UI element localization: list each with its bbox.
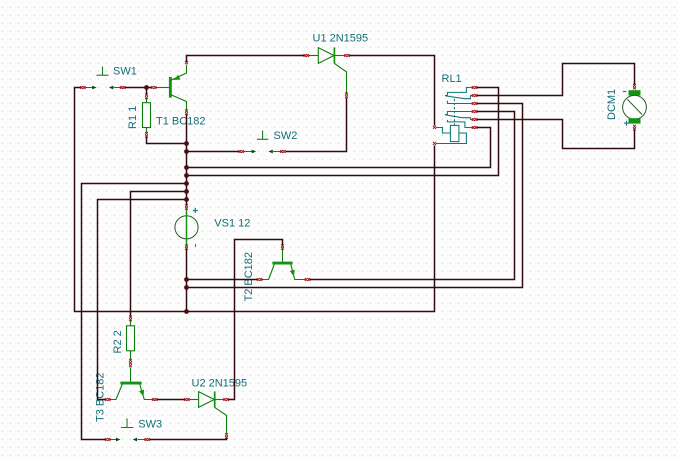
pin marks SW2 right	[280, 150, 286, 153]
pin marks RL1 coil B	[433, 142, 436, 145]
relay RL1 contact group 2 arm	[445, 115, 473, 120]
svg-text:SW3: SW3	[138, 418, 162, 430]
pin marks RL1 pin 1	[472, 86, 478, 89]
pin marks U1 anode	[304, 54, 310, 57]
node bus y167 junction	[184, 165, 189, 170]
relay RL1 linkage dashed line	[453, 99, 455, 125]
wire T2 right pin up to relay pin4	[310, 112, 515, 280]
pin marks RL1 coil A	[433, 126, 436, 129]
wire SW1 right to T1 base junction	[125, 87, 152, 89]
pin marks DCM1 bottom	[633, 125, 636, 131]
wire bus y287 right up to relay pin3	[187, 104, 523, 288]
transistor T3 base bar	[120, 382, 141, 385]
node SW1/R1/T1-base junction	[144, 85, 149, 90]
transistor T2 leads and emitter arrow	[262, 249, 306, 280]
transistor T1 base bar	[169, 77, 172, 98]
switch SW1 symbol	[85, 67, 121, 90]
pin marks SW2 left	[239, 150, 245, 153]
wire T1 emitter to U1 anode (top bus)	[187, 56, 305, 63]
svg-text:VS1 12: VS1 12	[214, 217, 250, 229]
pin marks T1 collector	[185, 110, 188, 116]
relay RL1 contact group 2 NO	[445, 112, 474, 115]
node R1/T1-collector/bus junction	[184, 141, 189, 146]
node bus y199 junction	[184, 197, 189, 202]
pin marks DCM1 top	[633, 84, 636, 90]
wire SW1 left down left side to bottom bus y311 to coil pin B vertical	[75, 88, 435, 312]
svg-text:R2 2: R2 2	[112, 330, 124, 353]
svg-text:U2 2N1595: U2 2N1595	[192, 378, 248, 390]
resistor R2	[127, 320, 135, 359]
wire bus y279 to T2 left pin	[187, 279, 258, 281]
wire bus y199 left down to T3 collector	[98, 200, 187, 400]
pin marks U2 gate	[225, 433, 228, 439]
node bus y175 junction	[184, 173, 189, 178]
pin marks R2 bottom / T3 base	[129, 359, 132, 367]
node bus y287 junction	[184, 285, 189, 290]
pin marks R1 bottom	[145, 132, 148, 138]
node bottom bus junction	[184, 309, 189, 314]
pin marks VS1 minus	[185, 245, 188, 250]
pin marks SW1 right	[120, 86, 126, 89]
wire bus y167 right up to relay pin6	[187, 128, 491, 168]
pin marks T2 base	[281, 244, 284, 249]
svg-text:U1 2N1595: U1 2N1595	[313, 33, 369, 45]
pin marks T2 collector	[257, 278, 263, 281]
wire SW3 right to U2 gate	[149, 437, 226, 439]
svg-text:T2 BC182: T2 BC182	[243, 252, 255, 302]
pin marks U1 gate	[345, 93, 348, 99]
transistor T1 leads and emitter arrow	[156, 65, 187, 111]
pin marks RL1 pin 2	[472, 94, 478, 97]
wire bus to SW2 left	[187, 151, 240, 153]
pin marks RL1 pin 6	[472, 126, 478, 129]
node bus y183 junction	[184, 181, 189, 186]
resistor R1	[143, 98, 151, 133]
svg-text:RL1: RL1	[442, 73, 462, 85]
pin marks U1 cathode	[344, 54, 350, 57]
relay RL1 coil	[436, 125, 466, 143]
node bus y191 junction	[184, 189, 189, 194]
switch SW3 symbol	[110, 418, 146, 441]
pin marks R1 top	[145, 94, 148, 100]
voltage source VS1	[175, 208, 198, 247]
switch SW2 symbol	[243, 131, 281, 154]
node bus-SW2 junction	[184, 149, 189, 154]
relay RL1 contact group 1 NO	[445, 88, 474, 96]
wire bus y191 left down to R2 top	[131, 192, 187, 317]
wire relay pin2 to motor top	[477, 64, 635, 96]
wire T3 emitter to U2 anode	[157, 399, 185, 401]
wire R1 bottom to bus junction	[147, 137, 187, 144]
pin marks SW3 left	[105, 438, 111, 441]
pin marks VS1 plus	[185, 204, 188, 209]
wire R1 top	[146, 88, 148, 95]
wire U1 cathode to relay coil pin A	[350, 56, 435, 126]
pin marks T1 base	[151, 86, 157, 89]
svg-text:R1 1: R1 1	[127, 106, 139, 129]
dc motor DCM1	[623, 90, 647, 126]
relay RL1 contact group 1 NC	[447, 101, 473, 104]
pin marks SW1 left	[80, 86, 86, 89]
pin marks T3 emitter	[152, 398, 158, 401]
pin marks U2 anode	[184, 398, 190, 401]
pin marks RL1 pin 4	[472, 110, 478, 113]
wire bus y183 left down to SW3 left	[82, 184, 187, 440]
pin marks U2 cathode	[223, 398, 229, 401]
pin marks T1 emitter	[185, 61, 188, 64]
wire T2 base up left down to U2 cathode	[228, 240, 282, 400]
relay RL1 contact group 2 NC	[447, 120, 473, 128]
wire VS1 bottom down to y311 junction	[186, 249, 188, 312]
node VS1-/T2 junction	[184, 277, 189, 282]
wire T1 collector down main bus to VS1 top	[186, 114, 188, 205]
svg-text:T3 BC182: T3 BC182	[95, 372, 107, 422]
wire bus y175 right up to relay pin1	[187, 88, 499, 176]
svg-text:DCM1: DCM1	[606, 89, 618, 120]
pin marks T2 emitter	[305, 278, 311, 281]
thyristor U2 2N1595	[189, 391, 227, 433]
relay RL1 contact group 1 arm	[445, 96, 473, 99]
svg-text:SW1: SW1	[113, 66, 137, 78]
svg-text:T1 BC182: T1 BC182	[156, 116, 206, 128]
wire relay pin5 to motor bottom	[477, 120, 635, 149]
pin marks RL1 pin 3	[472, 102, 478, 105]
thyristor U1 2N1595	[308, 47, 346, 93]
svg-text:SW2: SW2	[274, 130, 298, 142]
pin marks R2 top	[129, 316, 132, 322]
pin marks T3 collector	[105, 398, 111, 401]
wire U1 gate down to SW2	[286, 98, 347, 152]
transistor T3 leads and emitter arrow	[110, 368, 153, 400]
transistor T2 base bar	[272, 262, 292, 265]
pin marks SW3 right	[145, 438, 151, 441]
pin marks RL1 pin 5	[472, 118, 478, 121]
